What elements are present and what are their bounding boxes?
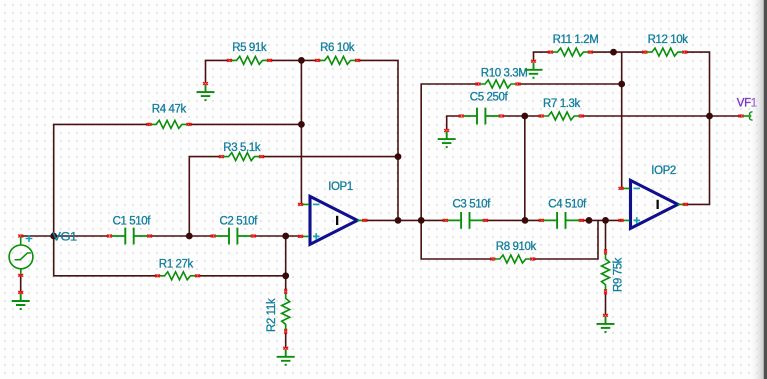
junction C3 left node — [418, 217, 425, 224]
wire: C4 right to IOP2 plus — [581, 219, 621, 221]
wire: column x621 from top row to IOP2 minus — [621, 52, 623, 188]
svg-text:IOP1: IOP1 — [328, 181, 353, 193]
svg-text:R11 1.2M: R11 1.2M — [553, 34, 599, 46]
wire: R2 node down to resistor R2 — [285, 276, 287, 292]
junction node A — [50, 233, 57, 240]
wire: C5 left corner to ground — [447, 116, 461, 131]
junction C3 C4 node — [522, 217, 529, 224]
output pin VF1 — [739, 112, 753, 120]
wire: R9 bottom to ground — [605, 292, 607, 316]
right window edge dark line — [764, 0, 767, 379]
svg-text:R9 75k: R9 75k — [613, 257, 625, 292]
op-amp IOP1 — [298, 196, 367, 244]
resistor R2 — [282, 289, 290, 334]
wire: IOP1 output to C3 left — [365, 219, 446, 221]
wire: R10 row from column x421 — [421, 84, 478, 220]
wire: R8 row loop — [421, 220, 598, 259]
resistor R10 — [476, 80, 521, 88]
wire: inverting column R5R6 node down to IOP1 minus — [300, 60, 302, 204]
svg-text:C2 510f: C2 510f — [220, 216, 259, 228]
wire: R5 right to R5R6 node to R6 left — [270, 59, 318, 61]
wire: C3 right to C4 left — [485, 219, 541, 221]
wire: R9 top connection — [605, 220, 607, 251]
wire: node A down and along R1 row — [54, 236, 158, 276]
op-amp IOP2 — [619, 180, 688, 228]
svg-text:R2 11k: R2 11k — [266, 298, 278, 332]
wire: R10 right to column x621 — [518, 83, 622, 85]
resistor R11 — [548, 48, 593, 56]
resistor R4 — [147, 120, 192, 128]
wire: R5 left corner to ground stub — [206, 60, 230, 83]
resistor R8 — [490, 255, 535, 263]
wire: C1 right to C2 left — [149, 235, 213, 237]
svg-text:R4 47k: R4 47k — [152, 104, 187, 116]
svg-text:C1 510f: C1 510f — [113, 216, 152, 228]
wire: C2 right to IOP1 plus input — [253, 235, 300, 237]
junction R3 right node — [395, 153, 402, 160]
wire: C5 node down to C3C4 node — [524, 116, 526, 220]
svg-text:R8 910k: R8 910k — [496, 241, 537, 253]
svg-text:R6 10k: R6 10k — [320, 42, 355, 54]
wire: R1 right to R2 top node — [198, 275, 286, 277]
junction VF1 output node — [706, 113, 713, 120]
capacitor C4 — [539, 212, 584, 229]
junction R5 R6 node — [298, 57, 305, 64]
resistor R9 — [602, 249, 610, 294]
junction R10 right node — [618, 81, 625, 88]
svg-text:C4 510f: C4 510f — [548, 198, 587, 210]
junction IOP1 plus node — [282, 233, 289, 240]
wire: VG1 plus to node A along main row — [21, 235, 109, 237]
svg-text:R1 27k: R1 27k — [159, 259, 194, 271]
wire: R2 bottom to ground — [285, 331, 287, 348]
wire: R6 right corner down column x398 — [358, 60, 398, 220]
svg-text:R7 1.3k: R7 1.3k — [543, 98, 580, 110]
resistor R3 — [219, 153, 264, 161]
ground below R2 — [277, 347, 295, 365]
svg-text:R12 10k: R12 10k — [648, 34, 689, 46]
junction R1 R2 node — [282, 272, 289, 279]
wire: output node to VF1 pin — [710, 115, 742, 117]
capacitor C2 — [211, 228, 256, 245]
voltage source VG1 — [9, 235, 33, 277]
resistor R12 — [642, 48, 687, 56]
right window edge gradient — [749, 0, 764, 379]
wire: R11 left corner to ground stub — [534, 52, 551, 61]
svg-text:C3 510f: C3 510f — [453, 198, 492, 210]
wire: R2 node up to main row — [285, 236, 287, 276]
junction R9 top node — [602, 217, 609, 224]
junction C5 R7 node — [521, 113, 528, 120]
capacitor C3 — [443, 212, 488, 229]
resistor R1 — [155, 272, 200, 280]
svg-text:C5 250f: C5 250f — [470, 92, 509, 104]
wire: R12 left to R11 right — [590, 51, 644, 53]
junction R11 R12 node — [610, 49, 617, 56]
wire: R7 right to output column — [581, 115, 709, 117]
ground below R9 — [597, 314, 615, 332]
ground below R11 left — [525, 60, 543, 78]
wire: R4 right to inverting column — [189, 123, 301, 125]
capacitor C5 — [459, 108, 504, 125]
ground below C5 left — [438, 129, 456, 147]
svg-text:IOP2: IOP2 — [651, 165, 676, 177]
svg-text:R5 91k: R5 91k — [232, 42, 267, 54]
resistor R5 — [227, 56, 272, 64]
resistor R6 — [315, 56, 360, 64]
resistor R7 — [539, 112, 584, 120]
ground below VG1 — [12, 291, 30, 309]
wire: VG1 bottom to ground — [20, 275, 22, 292]
svg-text:VG1: VG1 — [52, 232, 77, 244]
svg-text:R10 3.3M: R10 3.3M — [481, 67, 528, 79]
junction C4 right node — [586, 217, 593, 224]
junction IOP1 output node — [395, 217, 402, 224]
junction R4 right node — [298, 121, 305, 128]
svg-text:R3 5.1k: R3 5.1k — [223, 142, 260, 154]
junction R3 column at main row — [186, 233, 193, 240]
ground below R5 left — [197, 82, 215, 100]
wire: IOP2 output up right column to R12 — [685, 52, 710, 204]
wire: R3 column up from main row, R3 row left lead — [189, 157, 221, 236]
capacitor C1 — [107, 228, 152, 245]
wire: node A up to R4 row and to R4 left — [54, 124, 149, 236]
wire: C5 right to R7 left — [502, 115, 541, 117]
wire: R3 right to column x398 — [262, 156, 399, 158]
